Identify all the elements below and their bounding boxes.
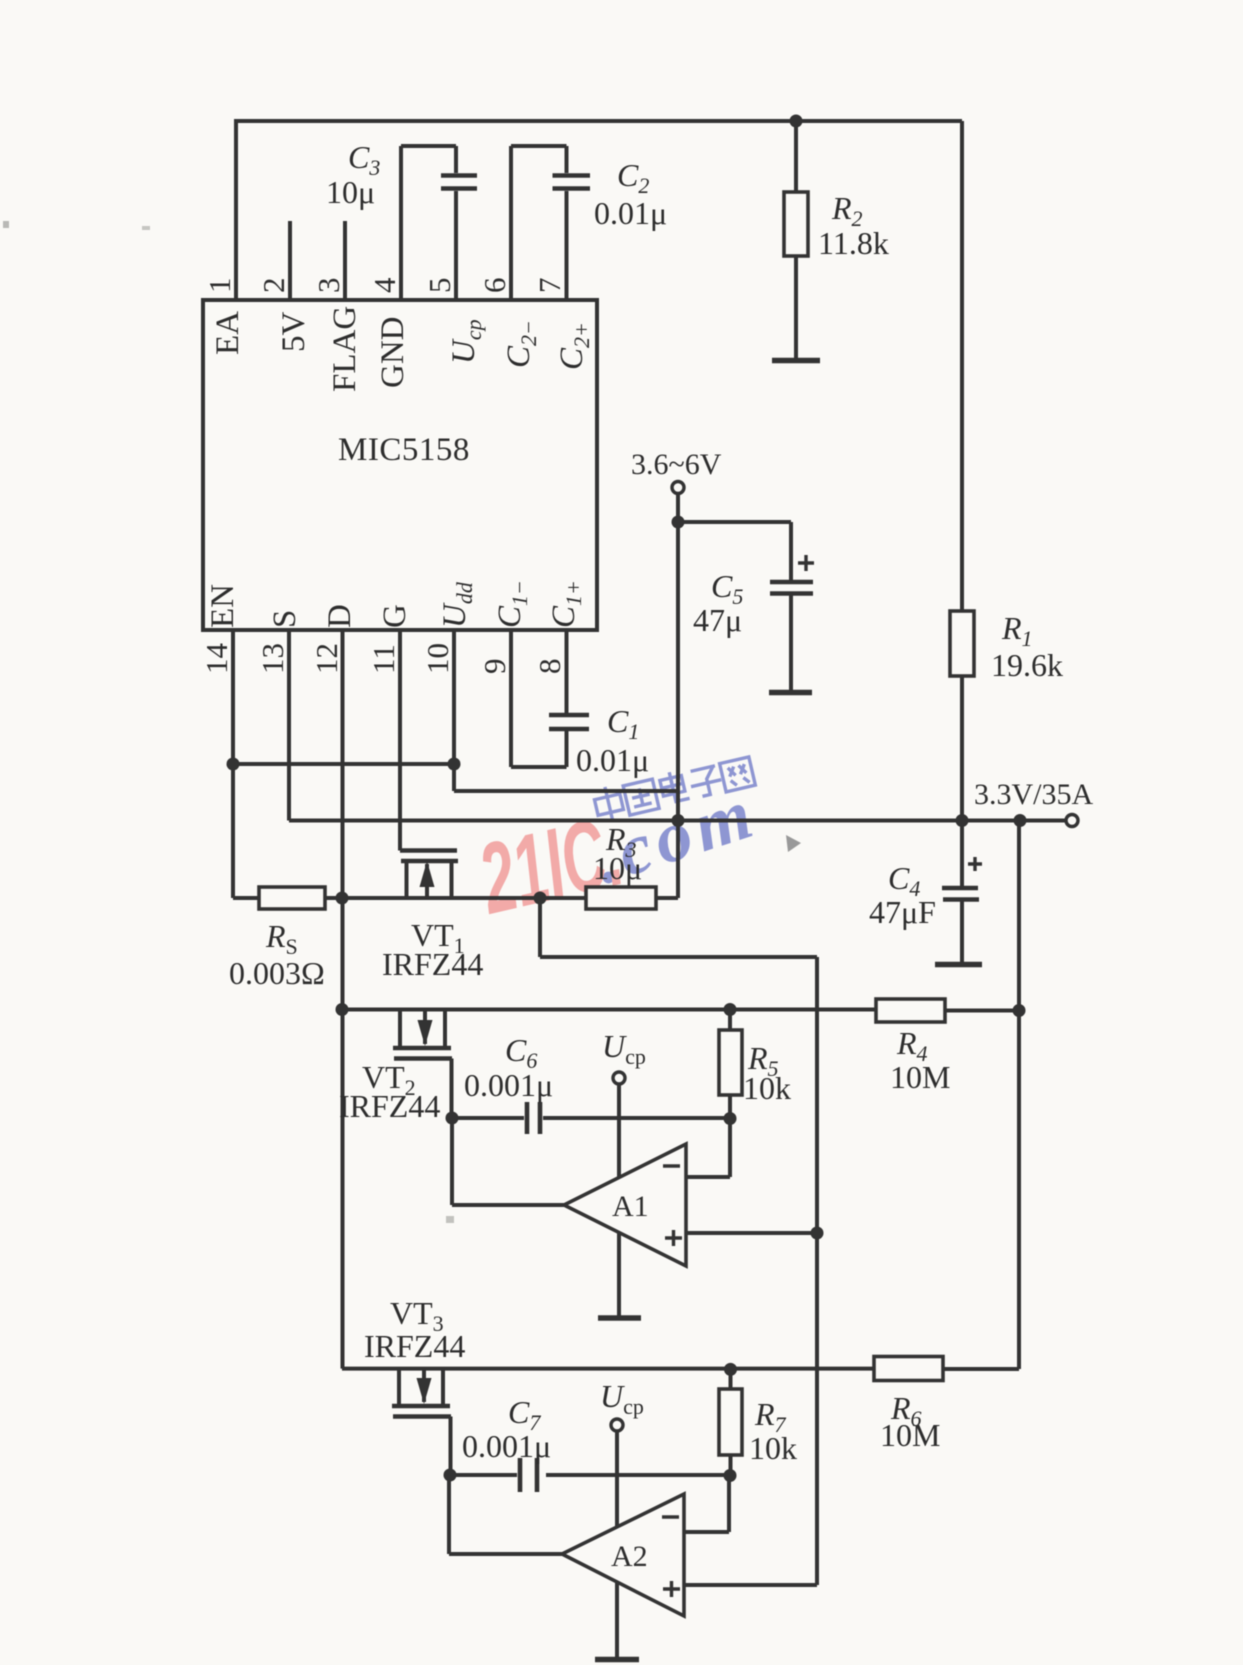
transistor VT3 IRFZ44 (397, 1369, 401, 1404)
svg-text:8: 8 (532, 659, 567, 675)
wire: pin1 riser (234, 121, 238, 300)
svg-text:0.003Ω: 0.003Ω (229, 955, 325, 991)
pin number 7 (532, 278, 567, 294)
junction: rail/R1 (956, 814, 969, 827)
junction: R5 top (724, 1003, 737, 1016)
wire: drain node down and across to comparator column (540, 898, 817, 1585)
svg-text:0.01μ: 0.01μ (594, 195, 667, 231)
A1 minus input (663, 1164, 680, 1167)
svg-text:3.6~6V: 3.6~6V (631, 448, 722, 481)
svg-text:0.01μ: 0.01μ (576, 742, 649, 778)
svg-text:13: 13 (255, 643, 290, 674)
junction: VT2 gate node (446, 1112, 459, 1125)
svg-text:12: 12 (309, 643, 344, 674)
resistor R2 (794, 121, 798, 192)
resistor R4 (876, 999, 945, 1022)
ground below A2 (595, 1657, 639, 1663)
ground below C5 (769, 690, 812, 696)
wire: pin13 S to rail (287, 630, 291, 821)
pin number 9 (477, 659, 512, 675)
resistor R6 (874, 1357, 943, 1381)
IC pin label Ucp (446, 319, 486, 364)
op-amp A2 (562, 1494, 684, 1616)
svg-text:10k: 10k (743, 1070, 791, 1106)
svg-text:7: 7 (532, 278, 567, 294)
pin number 6 (477, 278, 512, 294)
capacitor C6 (452, 1116, 524, 1120)
A2 plus input (663, 1581, 680, 1597)
svg-text:FLAG: FLAG (327, 306, 363, 392)
pin number 2 (256, 278, 291, 294)
IC pin label GND (375, 317, 411, 389)
transistor VT1 IRFZ44 (400, 848, 457, 853)
A2 minus input (662, 1515, 679, 1518)
svg-text:14: 14 (199, 643, 234, 675)
junction: pin14 link (227, 758, 240, 771)
wire: C1 bottom link (511, 765, 567, 769)
wire: branch to C5 (678, 520, 791, 524)
pin number 8 (532, 659, 567, 675)
pin 2 stub (288, 221, 292, 300)
input terminal 3.6~6V (672, 482, 684, 494)
capacitor C4 (960, 821, 964, 887)
svg-text:3.3V/35A: 3.3V/35A (974, 778, 1094, 811)
pin number 13 (255, 643, 290, 674)
resistor R1 (950, 611, 974, 676)
A1 output wire (452, 1118, 564, 1205)
IC pin label C1+ (546, 580, 586, 628)
junction: pin10 link (448, 758, 461, 771)
wire: pin12 long vertical (341, 630, 345, 1369)
svg-text:0.001μ: 0.001μ (464, 1067, 553, 1103)
C5 plus sign (798, 555, 814, 571)
wire: Ucp down through A1 (617, 1085, 621, 1317)
A1 plus input (665, 1230, 682, 1246)
C4 plus sign (968, 857, 982, 871)
svg-text:2: 2 (256, 278, 291, 294)
Ucp terminal A1 (613, 1072, 625, 1084)
svg-text:EN: EN (205, 584, 241, 628)
transistor VT2 IRFZ44 (398, 1010, 402, 1047)
pin number 4 (367, 277, 402, 293)
wire: pin10 Udd down and right to input line (454, 630, 678, 791)
svg-text:5V: 5V (276, 312, 312, 353)
IC pin label C1- (492, 580, 532, 628)
capacitor C3 bridge pins 4-5 (401, 146, 456, 300)
pin number 5 (422, 278, 457, 294)
svg-text:3: 3 (311, 278, 346, 294)
svg-text:D: D (322, 604, 358, 628)
resistor RS 0.003ohm (233, 896, 259, 900)
IC pin label G (377, 604, 413, 628)
svg-text:19.6k: 19.6k (991, 647, 1063, 683)
junction: C7/R7 node (724, 1469, 737, 1482)
wire: R4/R6 right riser (1017, 821, 1021, 1370)
junction: rail/R4-R6 branch (1014, 814, 1027, 827)
capacitor C2 bridge pins 6-7 (511, 146, 567, 300)
pin number 1 (202, 278, 237, 294)
junction: A1 plus / column (811, 1227, 824, 1240)
wire: EN-Udd link (233, 762, 454, 766)
pin number 12 (309, 643, 344, 674)
wire: Ucp down through A2 (615, 1431, 619, 1657)
svg-text:10: 10 (420, 643, 455, 674)
IC pin label C2- (501, 320, 541, 368)
capacitor C7 (450, 1473, 517, 1477)
output terminal 3.3V/35A (1066, 815, 1078, 827)
pin number 14 (199, 643, 234, 675)
svg-text:IRFZ44: IRFZ44 (382, 946, 483, 982)
junction: input/C5 (672, 516, 685, 529)
resistor R3 (586, 887, 656, 909)
resistor R5 (728, 1010, 732, 1031)
A2 output wire (449, 1475, 562, 1554)
svg-text:6: 6 (477, 278, 512, 294)
capacitor C5 (789, 522, 793, 580)
junction: pin12 line / VT2 row (336, 1003, 349, 1016)
pin 3 stub (343, 221, 347, 300)
svg-text:MIC5158: MIC5158 (338, 432, 470, 468)
wire: input vertical down to R3 lead (676, 494, 680, 898)
svg-text:10M: 10M (890, 1059, 950, 1095)
junction: R7 top (724, 1363, 737, 1376)
junction: C6/R5 node (724, 1112, 737, 1125)
stray mark: speck (142, 226, 150, 230)
IC pin label 5V (276, 312, 312, 353)
svg-text:9: 9 (477, 659, 512, 675)
watermark: 21IC (469, 796, 633, 936)
wire: pin11 to VT1 gate (398, 630, 402, 851)
wire: top rail (234, 119, 962, 123)
junction: R4 / riser (1013, 1004, 1026, 1017)
ground below R2 (772, 358, 820, 364)
svg-text:0.001μ: 0.001μ (462, 1428, 551, 1464)
svg-text:10μ: 10μ (326, 174, 375, 210)
op-amp A1 (564, 1144, 686, 1266)
junction: VT3 gate node (444, 1469, 457, 1482)
svg-text:G: G (377, 604, 413, 628)
svg-text:5: 5 (422, 278, 457, 294)
wire: VT1 channel row (342, 896, 586, 900)
wire: VT3 row (342, 1367, 874, 1371)
watermark: .com script (584, 772, 767, 899)
pin number 11 (366, 644, 401, 674)
IC pin label EA (210, 311, 246, 355)
junction: top rail / R2 (790, 115, 803, 128)
svg-text:10μ: 10μ (593, 850, 642, 886)
stray mark: cursor arrow (786, 835, 801, 852)
stray mark: speck near A1 output (446, 1216, 454, 1223)
wire: pin9 down (509, 630, 513, 767)
resistor R7 (729, 1369, 733, 1389)
svg-text:IRFZ44: IRFZ44 (339, 1088, 440, 1124)
IC pin label D (322, 604, 358, 628)
svg-text:10M: 10M (880, 1417, 940, 1453)
IC pin label Udd (437, 581, 477, 628)
svg-text:11.8k: 11.8k (818, 225, 889, 261)
ground below C4 (935, 962, 982, 968)
svg-text:IRFZ44: IRFZ44 (364, 1328, 465, 1364)
wire: pin14 down (231, 630, 235, 898)
stray mark: small speck left margin (3, 221, 9, 228)
junction: rail/R3 riser (672, 814, 685, 827)
junction: RS/pin12 (336, 892, 349, 905)
capacitor C1 on pin 8 (565, 630, 569, 713)
svg-text:47μF: 47μF (869, 894, 936, 930)
svg-text:1: 1 (202, 278, 237, 294)
svg-text:EA: EA (210, 311, 246, 355)
svg-text:A2: A2 (611, 1540, 648, 1573)
svg-text:GND: GND (375, 317, 411, 389)
IC pin label EN (205, 584, 241, 628)
wire: output rail 3.3V (289, 819, 1066, 823)
svg-text:10k: 10k (749, 1430, 797, 1466)
Ucp terminal A2 (611, 1419, 623, 1431)
IC pin label C2+ (554, 322, 594, 370)
IC pin label S (267, 610, 303, 628)
junction: VT1 drain node (534, 892, 547, 905)
svg-text:47μ: 47μ (693, 602, 742, 638)
wire: right drop to R1 (960, 121, 964, 611)
svg-text:11: 11 (366, 644, 401, 674)
IC pin label FLAG (327, 306, 363, 392)
pin number 10 (420, 643, 455, 674)
wire: VT2 row (342, 1008, 876, 1012)
svg-text:4: 4 (367, 277, 402, 293)
svg-text:A1: A1 (612, 1190, 649, 1223)
IC U1 MIC5158 body (203, 300, 597, 630)
ground below A1 (598, 1315, 641, 1321)
pin number 3 (311, 278, 346, 294)
svg-text:S: S (267, 610, 303, 628)
watermark: chinese characters (592, 754, 756, 824)
